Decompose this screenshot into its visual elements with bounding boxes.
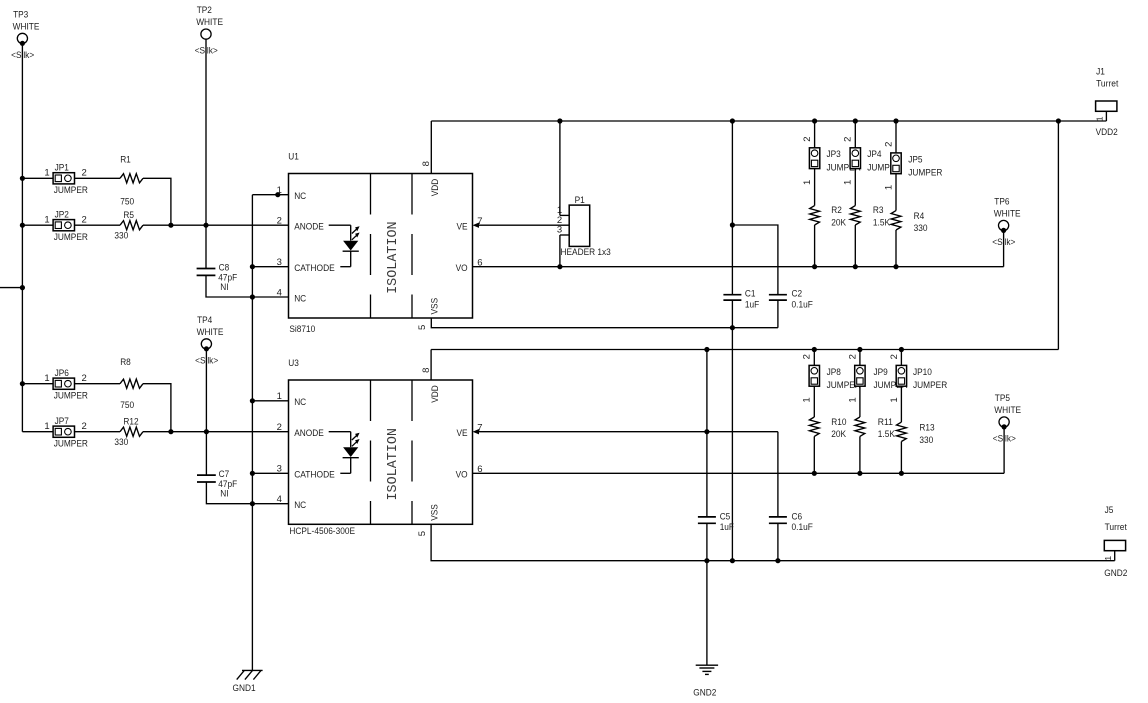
- resistor R3: [850, 205, 890, 229]
- capacitor C8: [197, 263, 238, 294]
- jumper JP8: [813, 350, 815, 366]
- wire: [813, 436, 815, 473]
- svg-text:3: 3: [277, 464, 282, 475]
- junction: [250, 471, 255, 476]
- svg-text:TP4: TP4: [197, 315, 212, 326]
- svg-text:VDD: VDD: [430, 179, 441, 197]
- wire: [900, 386, 902, 422]
- svg-text:NC: NC: [294, 293, 306, 304]
- svg-text:ANODE: ANODE: [294, 428, 324, 439]
- wire U3 pin4 stub: [252, 503, 288, 505]
- svg-text:1: 1: [277, 391, 282, 402]
- net VO (channel 2): [473, 472, 1005, 474]
- junction: [20, 285, 25, 290]
- svg-text:1: 1: [802, 397, 813, 402]
- wire C5 branch: [706, 350, 708, 517]
- junction: [775, 558, 780, 563]
- opto-isolator U1 body: [289, 174, 473, 319]
- jumper JP6: [44, 368, 88, 402]
- svg-text:VO: VO: [456, 470, 468, 481]
- svg-text:5: 5: [417, 531, 428, 536]
- junction: [250, 294, 255, 299]
- svg-text:2: 2: [883, 142, 894, 147]
- junction: [893, 118, 898, 123]
- svg-text:WHITE: WHITE: [994, 209, 1021, 220]
- svg-text:VO: VO: [456, 263, 468, 274]
- junction: [730, 325, 735, 330]
- test point TP4: [195, 315, 223, 367]
- svg-text:4: 4: [277, 494, 282, 505]
- svg-text:330: 330: [919, 435, 933, 446]
- svg-text:R4: R4: [914, 211, 925, 222]
- svg-text:2: 2: [889, 354, 900, 359]
- jumper JP1: [44, 163, 88, 197]
- junction: [168, 429, 173, 434]
- svg-text:2: 2: [843, 137, 854, 142]
- wire: [75, 177, 121, 179]
- junction: [704, 347, 709, 352]
- header P1: [557, 195, 611, 258]
- svg-text:JUMPER: JUMPER: [54, 390, 88, 401]
- resistor R13: [897, 422, 935, 446]
- svg-text:2: 2: [847, 354, 858, 359]
- svg-text:JP7: JP7: [55, 416, 69, 427]
- wire: [900, 442, 902, 474]
- jumper JP10: [900, 350, 902, 366]
- junction: [899, 347, 904, 352]
- svg-text:VDD: VDD: [430, 385, 441, 403]
- svg-text:R12: R12: [123, 417, 138, 428]
- svg-text:R8: R8: [120, 357, 131, 368]
- svg-text:20K: 20K: [831, 218, 846, 229]
- svg-text:JP6: JP6: [55, 368, 69, 379]
- svg-text:WHITE: WHITE: [994, 405, 1021, 416]
- svg-text:C1: C1: [745, 289, 756, 300]
- junction: [704, 429, 709, 434]
- junction: [893, 264, 898, 269]
- svg-text:1: 1: [883, 185, 894, 190]
- junction: [730, 118, 735, 123]
- svg-text:TP3: TP3: [13, 9, 28, 20]
- ground GND2 symbol: [696, 665, 718, 674]
- wire: [75, 224, 121, 226]
- svg-text:VE: VE: [457, 222, 468, 233]
- svg-text:GND2: GND2: [693, 688, 716, 699]
- svg-text:1: 1: [44, 168, 49, 179]
- svg-text:2: 2: [802, 354, 813, 359]
- wire P1 pin3 to VO net: [559, 235, 561, 267]
- wire: [854, 225, 856, 267]
- svg-text:1: 1: [802, 180, 813, 185]
- isolation barrier dashed lines: [371, 380, 413, 524]
- svg-text:1: 1: [1103, 556, 1113, 561]
- resistor R10: [809, 417, 846, 440]
- svg-text:GND1: GND1: [233, 683, 256, 694]
- svg-text:Turret: Turret: [1096, 79, 1119, 90]
- svg-text:1uF: 1uF: [720, 522, 734, 533]
- wire C6 branch: [777, 432, 779, 517]
- junction: [203, 223, 208, 228]
- svg-text:CATHODE: CATHODE: [294, 263, 335, 274]
- svg-text:5: 5: [417, 325, 428, 330]
- wire: [814, 169, 816, 206]
- svg-text:JP4: JP4: [867, 149, 881, 160]
- wire: [814, 225, 816, 267]
- svg-text:ISOLATION: ISOLATION: [385, 428, 401, 501]
- svg-text:2: 2: [82, 214, 87, 225]
- wire TP5 to VO net: [1003, 427, 1005, 473]
- svg-text:750: 750: [120, 196, 134, 207]
- net VO (channel 1): [473, 266, 1004, 268]
- svg-text:P1: P1: [575, 195, 585, 206]
- svg-text:8: 8: [421, 161, 432, 166]
- junction: [730, 558, 735, 563]
- svg-text:JUMPER: JUMPER: [54, 438, 88, 449]
- svg-text:R11: R11: [878, 417, 893, 428]
- wire: [895, 230, 897, 267]
- internal LED U3: [329, 432, 360, 474]
- junction: [250, 501, 255, 506]
- svg-text:1: 1: [44, 373, 49, 384]
- svg-text:Si8710: Si8710: [289, 324, 315, 335]
- svg-text:U3: U3: [288, 358, 299, 369]
- test point TP2: [195, 5, 223, 57]
- svg-text:VSS: VSS: [430, 298, 441, 315]
- svg-text:3: 3: [277, 257, 282, 268]
- wire U1 pin 8 to VDD2 rail: [430, 121, 432, 174]
- junction: [20, 176, 25, 181]
- wire C5 to GND2: [706, 523, 708, 665]
- wire U1 pin3 stub: [252, 266, 288, 268]
- svg-text:JP2: JP2: [55, 209, 69, 220]
- wire: [75, 383, 121, 385]
- jumper JP5: [895, 121, 897, 153]
- svg-text:J1: J1: [1096, 67, 1105, 78]
- junction: [20, 223, 25, 228]
- wire C6 to GND2 rail: [777, 523, 779, 560]
- wire U1 pin4 stub: [252, 296, 288, 298]
- svg-text:1: 1: [1095, 116, 1105, 121]
- junction: [812, 264, 817, 269]
- junction: [168, 223, 173, 228]
- junction: [853, 264, 858, 269]
- wire C8 to pin4 node: [206, 275, 252, 297]
- svg-text:0.1uF: 0.1uF: [792, 522, 813, 533]
- junction: [20, 381, 25, 386]
- wire P1 pin1 to VDD2 rail: [559, 121, 561, 215]
- svg-text:1: 1: [847, 397, 858, 402]
- svg-text:JP1: JP1: [55, 163, 69, 174]
- svg-text:R13: R13: [919, 423, 934, 434]
- wire C7 to pin4 node: [206, 482, 252, 504]
- svg-text:1: 1: [843, 180, 854, 185]
- svg-text:JUMPER: JUMPER: [54, 185, 88, 196]
- wire U3 pin 8: [430, 350, 432, 381]
- svg-text:HEADER 1x3: HEADER 1x3: [561, 247, 611, 258]
- svg-text:C5: C5: [720, 512, 731, 523]
- jumper JP2: [44, 209, 88, 243]
- junction: [204, 429, 209, 434]
- junction: [853, 118, 858, 123]
- svg-text:WHITE: WHITE: [196, 17, 223, 28]
- svg-text:WHITE: WHITE: [13, 21, 40, 32]
- wire R8 to JP7 row: [143, 384, 171, 432]
- svg-text:2: 2: [277, 216, 282, 227]
- wire VDD2 branch to C1 C2: [731, 121, 733, 295]
- svg-text:VSS: VSS: [430, 504, 441, 521]
- svg-text:NI: NI: [220, 489, 228, 500]
- turret J5: [1103, 505, 1127, 561]
- wire U1 pin 5 VSS: [431, 318, 778, 328]
- capacitor C7: [197, 469, 237, 500]
- jumper JP4: [854, 121, 856, 148]
- opto-isolator U3 body: [289, 380, 473, 524]
- wire: [813, 386, 815, 417]
- jumper JP3: [814, 121, 816, 148]
- wire JP6 row: [22, 383, 53, 385]
- svg-text:R2: R2: [831, 205, 842, 216]
- svg-text:3: 3: [557, 225, 562, 236]
- test point TP3: [11, 9, 39, 61]
- junction: [857, 471, 862, 476]
- net VE (channel 2): [479, 431, 778, 433]
- VE input arrow: [473, 429, 480, 434]
- wire GND1 bus vertical: [251, 195, 253, 671]
- wire U3 pin3 stub: [252, 472, 288, 474]
- wire JP7 row: [22, 431, 53, 433]
- svg-text:JP5: JP5: [908, 154, 922, 165]
- isolation barrier dashed lines: [371, 174, 413, 319]
- svg-text:JP3: JP3: [827, 149, 841, 160]
- junction: [730, 222, 735, 227]
- junction: [704, 558, 709, 563]
- wire C2 down to VSS wire: [777, 300, 779, 328]
- svg-text:NI: NI: [220, 282, 228, 293]
- resistor R5: [114, 210, 143, 241]
- svg-text:TP6: TP6: [994, 197, 1009, 208]
- wire JP1 row: [22, 177, 53, 179]
- svg-text:JUMPER: JUMPER: [913, 380, 947, 391]
- svg-text:NC: NC: [294, 397, 306, 408]
- junction: [275, 192, 280, 197]
- turret J1: [1095, 67, 1119, 122]
- svg-text:VDD2: VDD2: [1096, 127, 1118, 138]
- svg-text:1.5K: 1.5K: [873, 218, 891, 229]
- svg-text:Turret: Turret: [1105, 522, 1128, 533]
- internal LED U1: [329, 225, 360, 267]
- junction: [812, 471, 817, 476]
- svg-text:8: 8: [421, 368, 432, 373]
- svg-text:NC: NC: [294, 191, 306, 202]
- wire VDD2 right riser: [1057, 121, 1059, 350]
- svg-text:GND2: GND2: [1104, 568, 1127, 579]
- svg-text:1uF: 1uF: [745, 300, 759, 311]
- svg-text:ANODE: ANODE: [294, 221, 324, 232]
- svg-text:TP2: TP2: [197, 5, 212, 16]
- junction: [557, 118, 562, 123]
- jumper JP7: [44, 416, 88, 450]
- svg-text:4: 4: [277, 287, 282, 298]
- junction: [250, 398, 255, 403]
- svg-text:2: 2: [82, 168, 87, 179]
- junction: [857, 347, 862, 352]
- wire R1 to JP2 row: [143, 178, 171, 225]
- svg-text:HCPL-4506-300E: HCPL-4506-300E: [289, 526, 355, 537]
- wire anode net to U3 pin 2: [143, 431, 289, 433]
- wire U3 pin 5 VSS: [431, 524, 1115, 560]
- svg-text:WHITE: WHITE: [197, 327, 224, 338]
- ground GND1: [233, 670, 263, 693]
- svg-text:1: 1: [44, 214, 49, 225]
- wire: [895, 174, 897, 211]
- svg-text:R10: R10: [831, 417, 846, 428]
- wire: [859, 386, 861, 417]
- resistor R1: [120, 155, 143, 208]
- capacitor C2: [769, 289, 813, 311]
- svg-text:1: 1: [277, 185, 282, 196]
- resistor R2: [810, 205, 847, 229]
- svg-text:2: 2: [802, 137, 813, 142]
- wire TP2 down to anode row: [205, 39, 207, 269]
- svg-text:CATHODE: CATHODE: [294, 470, 335, 481]
- svg-text:R1: R1: [120, 155, 131, 166]
- svg-text:U1: U1: [288, 152, 299, 163]
- svg-text:JP9: JP9: [874, 367, 888, 378]
- svg-text:R3: R3: [873, 205, 884, 216]
- resistor R11: [855, 417, 895, 440]
- svg-text:J5: J5: [1105, 505, 1114, 516]
- svg-text:1: 1: [44, 421, 49, 432]
- wire U3 pin1 stub: [252, 400, 288, 402]
- junction: [812, 118, 817, 123]
- svg-text:330: 330: [114, 437, 128, 448]
- svg-text:20K: 20K: [831, 429, 846, 440]
- svg-text:330: 330: [914, 223, 928, 234]
- capacitor C6: [769, 512, 813, 534]
- svg-text:750: 750: [120, 400, 134, 411]
- svg-text:JP10: JP10: [913, 367, 932, 378]
- wire: [75, 431, 121, 433]
- svg-text:TP5: TP5: [995, 393, 1010, 404]
- test point TP5: [993, 393, 1021, 445]
- svg-text:C2: C2: [792, 289, 803, 300]
- svg-text:2: 2: [277, 422, 282, 433]
- svg-text:JUMPER: JUMPER: [908, 168, 942, 179]
- resistor R8: [120, 357, 143, 411]
- junction: [1056, 118, 1061, 123]
- capacitor C1: [723, 289, 759, 311]
- svg-text:JUMPER: JUMPER: [54, 232, 88, 243]
- off-page stub node: [0, 287, 22, 289]
- svg-text:0.1uF: 0.1uF: [792, 300, 813, 311]
- svg-text:1.5K: 1.5K: [878, 429, 896, 440]
- svg-text:C6: C6: [792, 512, 803, 523]
- wire: [854, 169, 856, 206]
- VE input arrow: [473, 223, 480, 228]
- test point TP6: [992, 197, 1020, 249]
- resistor R12: [114, 417, 143, 448]
- net VDD2 rail: [431, 120, 1106, 122]
- wire anode net to U1 pin 2: [143, 224, 289, 226]
- wire VE to P1: [479, 224, 569, 226]
- wire C1 down to GND2 rail: [731, 300, 733, 561]
- junction: [557, 264, 562, 269]
- capacitor C5: [698, 512, 734, 534]
- wire: [859, 436, 861, 473]
- junction: [899, 471, 904, 476]
- resistor R4: [891, 211, 927, 234]
- junction: [250, 264, 255, 269]
- wire U1 pin1 stub: [252, 194, 288, 196]
- svg-text:2: 2: [82, 373, 87, 384]
- wire JP2 row: [22, 224, 53, 226]
- svg-text:JP8: JP8: [827, 367, 841, 378]
- wire TP6 to VO net: [1003, 230, 1005, 266]
- svg-text:R5: R5: [123, 210, 134, 221]
- svg-text:VE: VE: [457, 428, 468, 439]
- svg-text:ISOLATION: ISOLATION: [385, 221, 401, 294]
- svg-text:NC: NC: [294, 500, 306, 511]
- wire tee to C2: [732, 225, 778, 295]
- junction: [812, 347, 817, 352]
- svg-text:330: 330: [114, 230, 128, 241]
- svg-text:1: 1: [889, 397, 900, 402]
- wire TP4 down to C7: [205, 349, 207, 475]
- wire TP3 down left bus: [21, 43, 23, 431]
- jumper JP9: [859, 350, 861, 366]
- svg-text:2: 2: [82, 421, 87, 432]
- net VDD2 rail (channel 2): [431, 349, 1058, 351]
